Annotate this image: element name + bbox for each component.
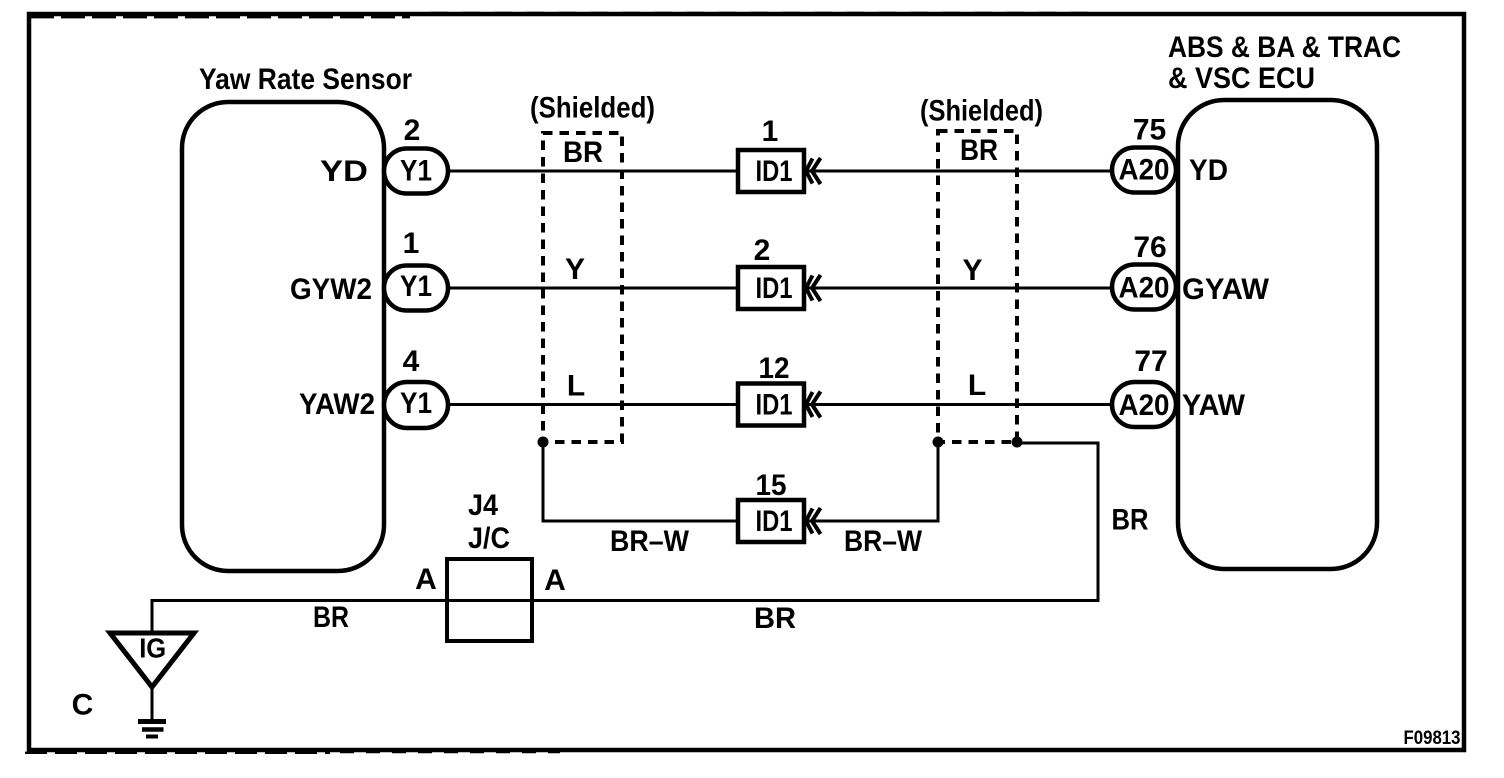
svg-text:A20: A20 — [1119, 272, 1170, 305]
svg-text:& VSC ECU: & VSC ECU — [1168, 62, 1315, 95]
svg-text:BR: BR — [754, 602, 796, 635]
svg-text:Y1: Y1 — [400, 387, 432, 420]
svg-text:BR: BR — [1112, 504, 1149, 537]
svg-text:12: 12 — [759, 352, 790, 385]
svg-text:(Shielded): (Shielded) — [530, 92, 655, 125]
svg-text:1: 1 — [403, 227, 420, 260]
svg-text:YAW: YAW — [1182, 389, 1246, 422]
svg-text:F09813: F09813 — [1404, 728, 1461, 749]
svg-text:Y: Y — [962, 254, 982, 287]
svg-text:BR: BR — [563, 136, 603, 169]
svg-text:YD: YD — [320, 155, 368, 188]
svg-text:L: L — [968, 369, 986, 402]
svg-text:IG: IG — [139, 633, 166, 664]
svg-text:GYAW: GYAW — [1182, 273, 1270, 306]
svg-text:77: 77 — [1134, 345, 1167, 378]
svg-text:J/C: J/C — [468, 522, 510, 555]
svg-text:76: 76 — [1133, 231, 1166, 264]
svg-text:A: A — [415, 563, 437, 596]
svg-text:BR: BR — [313, 601, 349, 634]
svg-text:ID1: ID1 — [756, 389, 793, 422]
svg-text:2: 2 — [754, 234, 771, 267]
svg-text:L: L — [567, 370, 585, 403]
svg-text:GYW2: GYW2 — [290, 273, 372, 306]
svg-text:BR: BR — [960, 134, 998, 167]
svg-text:A20: A20 — [1119, 389, 1170, 422]
svg-text:2: 2 — [404, 114, 421, 147]
svg-text:15: 15 — [756, 469, 787, 502]
svg-text:C: C — [72, 689, 94, 722]
svg-text:A20: A20 — [1119, 154, 1170, 187]
svg-text:YD: YD — [1189, 154, 1228, 187]
svg-text:ID1: ID1 — [756, 505, 793, 538]
svg-text:4: 4 — [403, 345, 420, 378]
svg-text:BR–W: BR–W — [844, 525, 923, 558]
svg-text:J4: J4 — [468, 489, 498, 522]
svg-text:Yaw Rate Sensor: Yaw Rate Sensor — [199, 63, 412, 96]
svg-text:ABS & BA & TRAC: ABS & BA & TRAC — [1168, 31, 1401, 64]
svg-text:YAW2: YAW2 — [299, 388, 375, 421]
svg-text:Y1: Y1 — [400, 270, 432, 303]
svg-text:ID1: ID1 — [756, 155, 793, 188]
svg-text:75: 75 — [1133, 114, 1166, 147]
svg-text:BR–W: BR–W — [610, 525, 690, 558]
svg-text:(Shielded): (Shielded) — [920, 95, 1043, 128]
svg-text:Y1: Y1 — [400, 155, 432, 188]
svg-text:A: A — [544, 564, 566, 597]
svg-text:1: 1 — [762, 115, 779, 148]
svg-text:Y: Y — [565, 253, 585, 286]
svg-text:ID1: ID1 — [756, 272, 793, 305]
